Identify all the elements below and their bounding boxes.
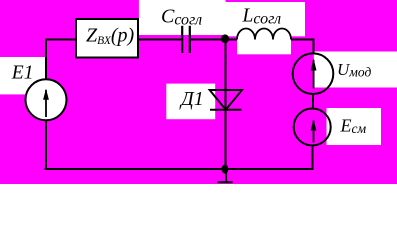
label plate for source Eсм — [327, 108, 382, 145]
node A junction dot (top) — [221, 34, 229, 43]
source E1 circle — [26, 79, 67, 120]
source E1 arrow — [43, 89, 49, 118]
wire: diode branch vertical — [225, 40, 227, 169]
wire: Uмод to Eсм — [312, 94, 314, 109]
wire: E1 bottom lead — [45, 120, 47, 169]
diode Д1 cathode bar — [210, 109, 242, 111]
wire: E1 top lead up and right to Zвх input — [46, 40, 76, 80]
source Eсм arrow — [311, 119, 317, 143]
inductor Lсогл coil — [237, 29, 291, 40]
diode Д1 triangle — [210, 90, 242, 110]
svg-text:Д1: Д1 — [179, 88, 204, 110]
inductor body white fill — [237, 36, 291, 54]
ground stub — [218, 169, 233, 182]
source Uмод circle — [293, 53, 334, 94]
wire: Zвх output to capacitor Cсогл — [138, 39, 181, 41]
label plate for diode Д1 — [166, 84, 215, 120]
source Uмод label text — [337, 60, 371, 80]
label plate for source E1 — [0, 57, 45, 94]
capacitor Cсогл value label — [161, 6, 202, 29]
wire: bottom rail — [45, 168, 314, 170]
source Eсм label text — [340, 115, 367, 136]
source E1 label text — [11, 63, 34, 84]
label plate for inductor Lсогл — [225, 2, 306, 36]
wire: inductor to Uмод source — [291, 40, 314, 54]
diode Д1 label text — [179, 88, 204, 110]
block Zвх(p) label — [86, 24, 135, 47]
wire: capacitor to node A — [191, 39, 237, 41]
svg-text:ZВХ(p): ZВХ(p) — [86, 24, 135, 47]
inductor Lсогл value label — [242, 6, 282, 28]
label plate for source Uмод — [314, 52, 397, 88]
label plate for capacitor Cсогл — [139, 0, 226, 35]
wire: Eсм down to bottom rail — [312, 146, 314, 170]
node B junction dot (bottom) — [222, 164, 229, 173]
source Eсм circle — [294, 109, 331, 146]
block Zвх(p) box — [76, 19, 138, 58]
capacitor Cсогл plates — [182, 26, 190, 53]
svg-text:E1: E1 — [11, 63, 34, 84]
source Uмод arrow — [311, 59, 317, 89]
